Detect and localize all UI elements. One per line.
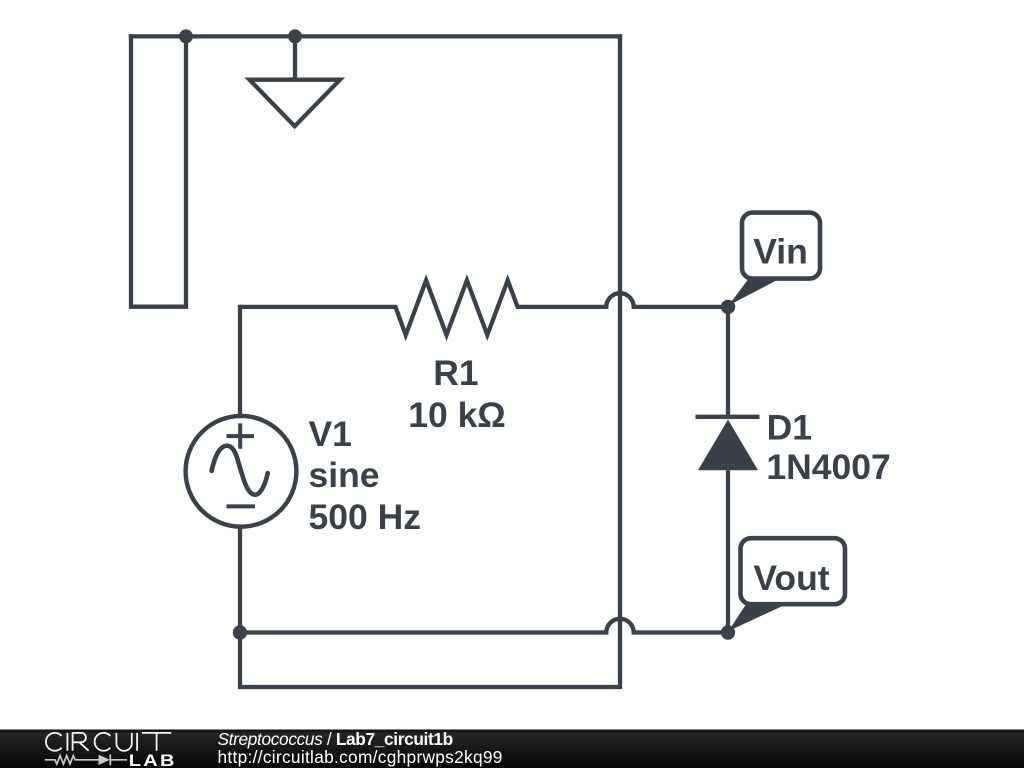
node junction ground <box>288 29 302 43</box>
svg-text:Vout: Vout <box>753 558 829 598</box>
svg-text:http://circuitlab.com/cghprwps: http://circuitlab.com/cghprwps2kq99 <box>218 747 503 767</box>
wire top horizontal net <box>131 34 620 38</box>
diode D1 <box>696 417 760 633</box>
node Vout <box>721 625 735 639</box>
svg-text:1N4007: 1N4007 <box>766 447 890 487</box>
svg-text:V1: V1 <box>309 414 352 454</box>
svg-text:D1: D1 <box>767 408 812 448</box>
node V1 bottom junction <box>233 625 247 639</box>
wire vertical bus <box>240 36 620 687</box>
wire left loop rectangle <box>131 36 186 306</box>
svg-text:R1: R1 <box>433 353 478 393</box>
svg-text:10 kΩ: 10 kΩ <box>408 395 506 435</box>
flag Vout <box>729 538 846 631</box>
footer bar <box>0 730 1024 768</box>
ground symbol <box>250 36 341 126</box>
svg-text:500 Hz: 500 Hz <box>309 497 421 537</box>
svg-text:sine: sine <box>309 455 380 495</box>
svg-text:Vin: Vin <box>753 231 808 271</box>
logo mini schematic wire <box>45 754 127 765</box>
node Vin <box>721 300 735 314</box>
resistor R1 <box>240 280 728 335</box>
wire diode upper lead <box>726 307 730 417</box>
wire V1 column <box>238 307 242 416</box>
svg-text:LAB: LAB <box>129 751 177 768</box>
voltage source V1 <box>186 416 297 527</box>
logo CIRCUIT wordmark <box>46 733 171 751</box>
wire bottom net with hop <box>240 619 728 633</box>
svg-text:Streptococcus / Lab7_circuit1b: Streptococcus / Lab7_circuit1b <box>218 729 453 749</box>
flag Vin <box>729 213 821 306</box>
node junction left loop <box>179 29 193 43</box>
